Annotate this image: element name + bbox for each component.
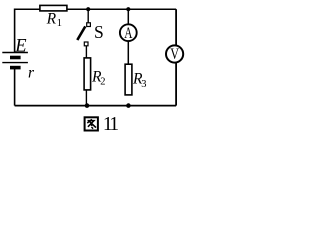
svg-text:3: 3: [141, 79, 146, 90]
svg-text:A: A: [124, 25, 133, 42]
caption glyph "tu" (figure) box: [85, 117, 98, 130]
wire switch stub: [87, 9, 89, 23]
voltmeter U-V: [166, 45, 183, 62]
battery E plate long bottom: [2, 62, 28, 64]
wire top: [15, 8, 177, 10]
svg-text:r: r: [28, 65, 35, 82]
svg-text:11: 11: [103, 114, 119, 134]
battery E bar short bottom: [10, 66, 21, 70]
svg-text:1: 1: [57, 18, 62, 29]
battery E plate long top: [2, 52, 28, 54]
wire left (lower, battery to bottom): [14, 69, 16, 106]
switch S terminal (top square): [87, 23, 91, 27]
wire left (upper, to battery): [14, 9, 16, 53]
node junction top-ammeter: [126, 7, 130, 11]
svg-text:V: V: [170, 46, 179, 63]
ammeter U-A: [120, 24, 137, 41]
svg-text:2: 2: [100, 77, 105, 88]
svg-text:E: E: [14, 37, 26, 57]
wire R2 branch: [85, 46, 87, 106]
resistor R3: [125, 64, 132, 95]
node junction bottom-R3: [126, 103, 131, 108]
node junction top-switch: [86, 7, 90, 11]
svg-text:S: S: [94, 22, 104, 42]
wire bottom: [15, 105, 177, 107]
node junction bottom-R2: [85, 103, 90, 108]
switch S terminal (bottom square): [84, 42, 88, 46]
svg-text:R: R: [46, 11, 57, 28]
resistor R1: [40, 5, 67, 10]
resistor R2: [84, 58, 91, 90]
wire ammeter branch: [127, 9, 129, 66]
wire right: [175, 9, 177, 105]
battery E bar short top: [10, 56, 21, 60]
switch S blade: [77, 26, 85, 40]
